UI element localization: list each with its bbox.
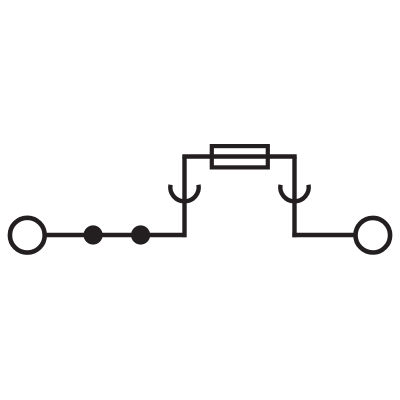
wire: left terminal to left riser xyxy=(45,233,186,237)
wire: top link through fuse xyxy=(182,154,296,158)
wire: left riser xyxy=(182,157,186,238)
junction dot 1 xyxy=(84,225,103,244)
fuse clip left xyxy=(170,185,198,202)
wire: right riser xyxy=(292,157,296,238)
fuse clip right xyxy=(280,185,308,202)
fuse body F1 xyxy=(212,146,268,167)
terminal right (circle) xyxy=(356,218,391,253)
junction dot 2 xyxy=(131,225,150,244)
wire: right riser to right terminal xyxy=(292,233,355,237)
terminal left (circle) xyxy=(10,218,45,253)
